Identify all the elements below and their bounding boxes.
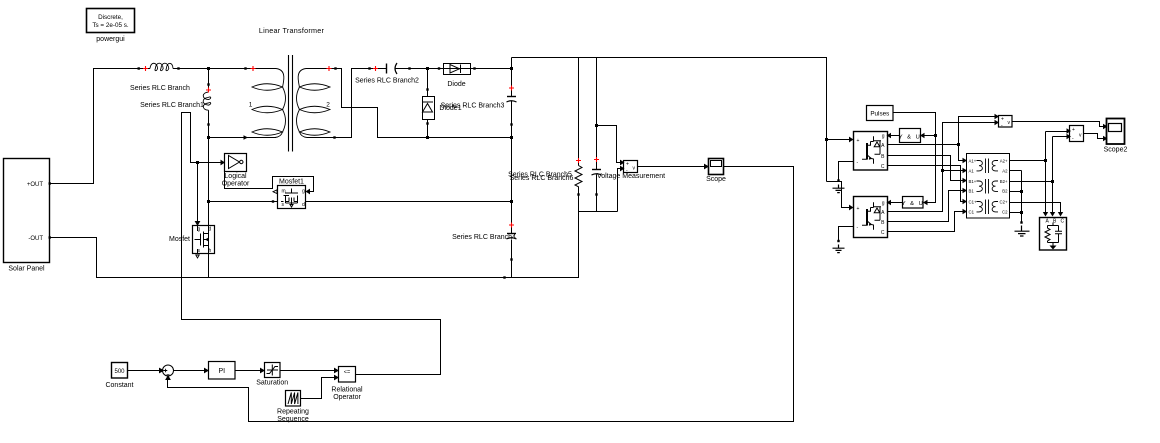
svg-text:2: 2 bbox=[326, 102, 330, 109]
svg-text:Series RLC Branch: Series RLC Branch bbox=[130, 85, 190, 92]
svg-text:C1+: C1+ bbox=[969, 200, 977, 205]
svg-text:1: 1 bbox=[249, 102, 253, 109]
svg-text:Saturation: Saturation bbox=[256, 380, 288, 387]
svg-text:g: g bbox=[302, 189, 305, 195]
svg-text:Pulses: Pulses bbox=[870, 111, 889, 118]
svg-text:Logical: Logical bbox=[224, 173, 247, 180]
svg-text:A1+: A1+ bbox=[969, 159, 977, 164]
svg-text:B1: B1 bbox=[969, 189, 975, 194]
svg-text:g: g bbox=[882, 134, 885, 140]
svg-text:Scope: Scope bbox=[706, 176, 726, 183]
svg-text:B1+: B1+ bbox=[969, 179, 977, 184]
svg-text:Series RLC Branch3: Series RLC Branch3 bbox=[441, 103, 505, 110]
svg-text:+OUT: +OUT bbox=[27, 182, 44, 188]
svg-text:A2+: A2+ bbox=[1000, 159, 1008, 164]
svg-text:d: d bbox=[302, 202, 305, 208]
svg-text:PI: PI bbox=[218, 368, 225, 375]
svg-text:C2+: C2+ bbox=[999, 200, 1007, 205]
svg-text:+: + bbox=[626, 162, 629, 168]
svg-text:<=: <= bbox=[344, 370, 350, 376]
svg-text:Linear Transformer: Linear Transformer bbox=[259, 26, 325, 35]
svg-text:h: h bbox=[209, 248, 212, 254]
svg-text:Sequence: Sequence bbox=[277, 416, 309, 423]
svg-text:C1: C1 bbox=[969, 210, 975, 215]
svg-text:C2: C2 bbox=[1002, 210, 1008, 215]
svg-text:Solar Panel: Solar Panel bbox=[8, 266, 45, 273]
svg-text:Series RLC Branch2: Series RLC Branch2 bbox=[355, 78, 419, 85]
svg-text:Operator: Operator bbox=[333, 394, 361, 401]
svg-text:Series RLC Branch6: Series RLC Branch6 bbox=[510, 175, 574, 182]
svg-text:d: d bbox=[209, 227, 212, 233]
svg-text:Voltage Measurement: Voltage Measurement bbox=[597, 173, 665, 180]
svg-text:Constant: Constant bbox=[105, 382, 133, 389]
svg-text:Series RLC Branch1: Series RLC Branch1 bbox=[140, 102, 204, 109]
svg-text:Diode: Diode bbox=[447, 81, 465, 88]
svg-text:+: + bbox=[1072, 127, 1075, 133]
svg-text:Operator: Operator bbox=[222, 181, 250, 188]
svg-text:500: 500 bbox=[114, 369, 125, 375]
svg-text:C: C bbox=[881, 164, 885, 170]
svg-text:Mosfet: Mosfet bbox=[169, 236, 190, 243]
svg-text:-OUT: -OUT bbox=[28, 236, 43, 242]
svg-text:powergui: powergui bbox=[96, 36, 125, 43]
svg-text:B2+: B2+ bbox=[1000, 179, 1008, 184]
svg-text:A1: A1 bbox=[969, 169, 975, 174]
svg-text:+: + bbox=[857, 206, 860, 212]
svg-text:Relational: Relational bbox=[331, 387, 363, 394]
svg-text:+: + bbox=[1001, 117, 1004, 123]
svg-text:m: m bbox=[282, 189, 286, 195]
svg-text:B2: B2 bbox=[1002, 189, 1008, 194]
svg-text:A2: A2 bbox=[1002, 169, 1008, 174]
svg-text:Scope2: Scope2 bbox=[1104, 147, 1128, 154]
svg-text:Y & U: Y & U bbox=[902, 201, 925, 207]
svg-text:g: g bbox=[882, 201, 885, 207]
svg-text:Series RLC Branch4: Series RLC Branch4 bbox=[452, 234, 516, 241]
svg-text:Mosfet1: Mosfet1 bbox=[279, 179, 304, 186]
svg-text:g: g bbox=[198, 227, 201, 233]
svg-text:Ts = 2e-05 s.: Ts = 2e-05 s. bbox=[92, 22, 128, 29]
svg-text:+: + bbox=[857, 138, 860, 144]
svg-text:Discrete,: Discrete, bbox=[98, 14, 123, 21]
svg-text:C: C bbox=[881, 230, 885, 236]
svg-text:Y & U: Y & U bbox=[899, 134, 922, 140]
svg-text:C: C bbox=[1061, 219, 1065, 225]
svg-text:Repeating: Repeating bbox=[277, 409, 309, 416]
